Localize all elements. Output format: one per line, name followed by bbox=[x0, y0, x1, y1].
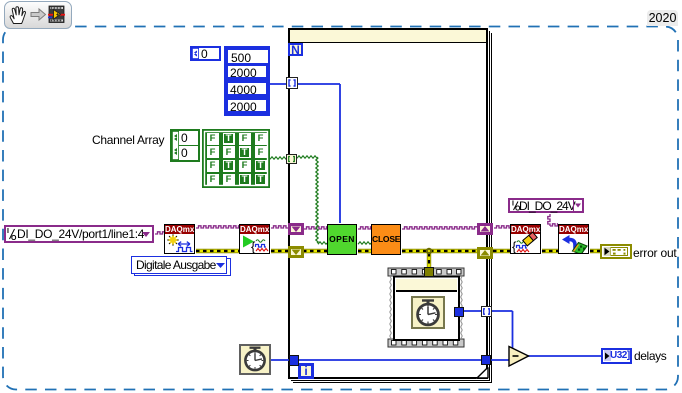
wire: green boolean zigzags bbox=[270, 156, 371, 244]
inner frame bbox=[394, 277, 459, 341]
DAQmx Create Virtual Channel U1 bbox=[164, 224, 195, 254]
error wire junction bbox=[426, 248, 432, 254]
i iteration terminal bbox=[298, 363, 314, 379]
row3: F T F T bbox=[207, 160, 219, 172]
delays label bbox=[634, 349, 666, 363]
CLOSE boolean action block bbox=[371, 224, 401, 255]
tunnel: green autoindex [] left bbox=[286, 154, 297, 164]
bottom sprocket band bbox=[388, 339, 464, 347]
shift register left purple (task) bbox=[288, 223, 304, 235]
DAQmx Clear Task U3 bbox=[510, 224, 541, 254]
left IO control DI_DO_24V/port1/line1:4 bbox=[4, 225, 154, 243]
numeric array constant index bbox=[190, 46, 221, 61]
wait-until-next-ms clock inside sequence bbox=[411, 296, 445, 329]
blue double arrow bbox=[178, 242, 190, 247]
tick count clock (bottom left) bbox=[239, 344, 271, 375]
delays U32 array indicator bbox=[601, 348, 632, 364]
shift register left olive (error) bbox=[288, 246, 304, 258]
blue square wave bbox=[176, 248, 193, 252]
toolbar VI icon bbox=[48, 6, 65, 23]
error out label bbox=[633, 246, 677, 260]
enum constant Digitale Ausgabe bbox=[134, 258, 231, 276]
tunnel: blue autoindex [] right bbox=[481, 306, 492, 317]
tunnel: blue solid right bottom bbox=[481, 355, 491, 365]
sequence blue tunnel (ms out) bbox=[454, 307, 464, 317]
toolbar arrow icon bbox=[31, 9, 46, 20]
Channel Array label bbox=[92, 133, 164, 147]
loop corner fold bbox=[477, 367, 489, 379]
boolean array index (2D) bbox=[170, 129, 200, 162]
row2: F F T F bbox=[207, 146, 219, 158]
shift register right purple (task) bbox=[477, 223, 493, 235]
loop subdiagram label bar bbox=[290, 30, 486, 43]
sprocket holes top bbox=[392, 270, 462, 275]
right IO control DI_DO_24V bbox=[508, 198, 584, 213]
shift register right olive (error) bbox=[477, 247, 493, 259]
row4: F F T T bbox=[207, 174, 219, 186]
left film edge zigzag bbox=[390, 276, 392, 339]
wire: purple DAQmx task squiggles bbox=[155, 214, 558, 234]
tunnel: blue solid left bottom bbox=[289, 355, 299, 366]
sprocket holes bottom bbox=[392, 341, 458, 346]
tunnel: blue autoindex [] left bbox=[286, 77, 298, 89]
DAQmx Start Task U2 bbox=[239, 224, 270, 254]
DAQmx Reset/Unreserve U4 bbox=[558, 224, 589, 254]
wire: error cluster (olive/yellow/black dashed) bbox=[196, 248, 600, 268]
right film edge zigzag bbox=[461, 276, 463, 339]
wire: blue array into loop bbox=[270, 84, 601, 360]
toolbar bbox=[4, 1, 72, 29]
sequence olive tunnel bbox=[424, 267, 434, 277]
2020 version tab bbox=[647, 10, 678, 26]
sequence subdiagram label bar bbox=[396, 279, 457, 292]
N count terminal bbox=[288, 43, 303, 56]
top sprocket band bbox=[388, 268, 464, 276]
yellow new-star glyph bbox=[168, 235, 178, 245]
numeric array constant body: 500/2000/4000/2000 bbox=[224, 46, 270, 116]
row1: F T F F bbox=[207, 133, 219, 145]
OPEN boolean action block bbox=[327, 224, 357, 255]
boolean cells grid bbox=[202, 129, 270, 188]
